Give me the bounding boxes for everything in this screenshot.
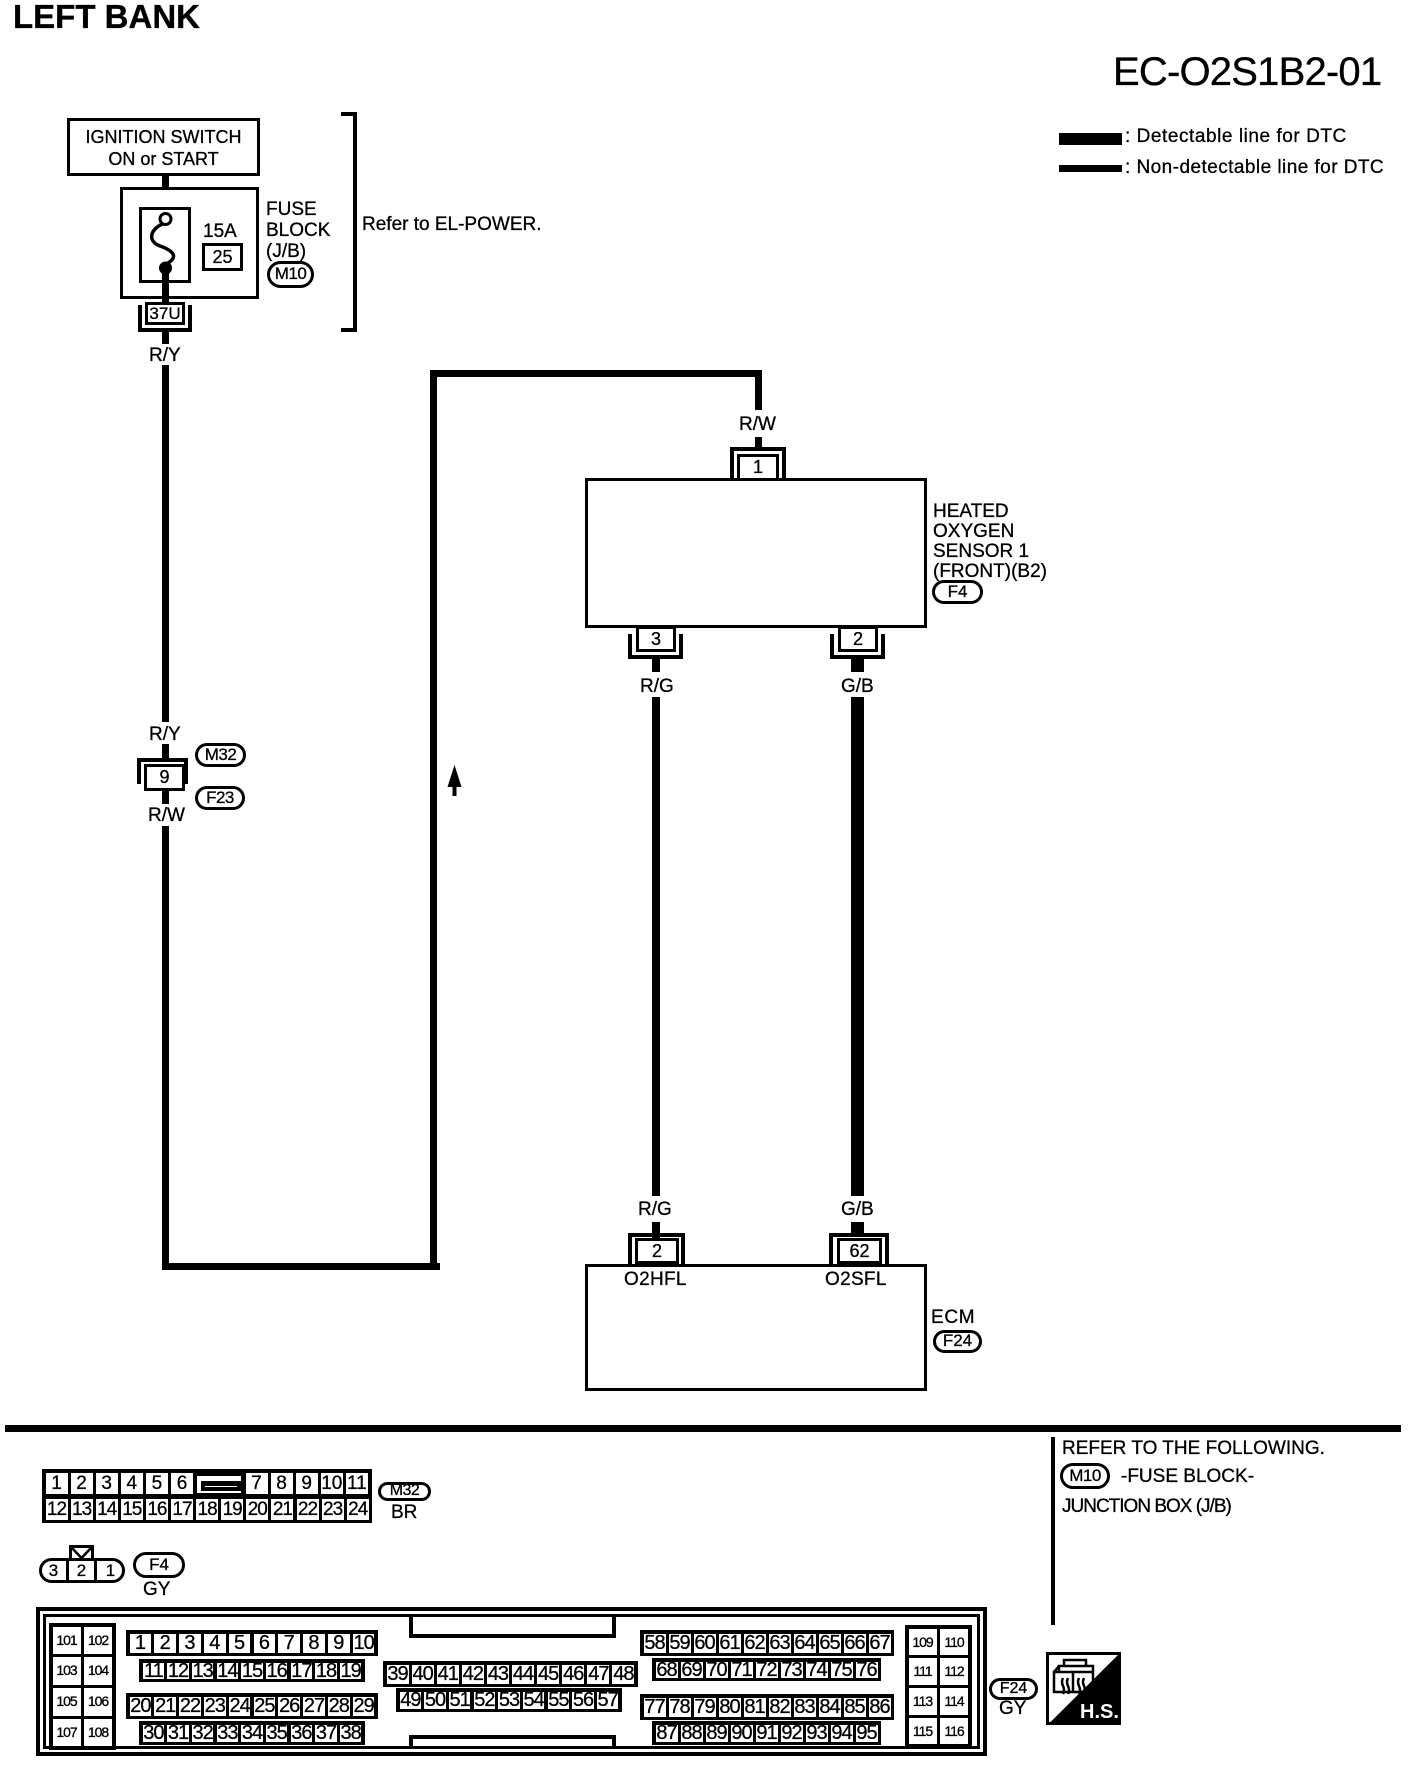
svg-text:H.S.: H.S. [1080,1701,1119,1723]
